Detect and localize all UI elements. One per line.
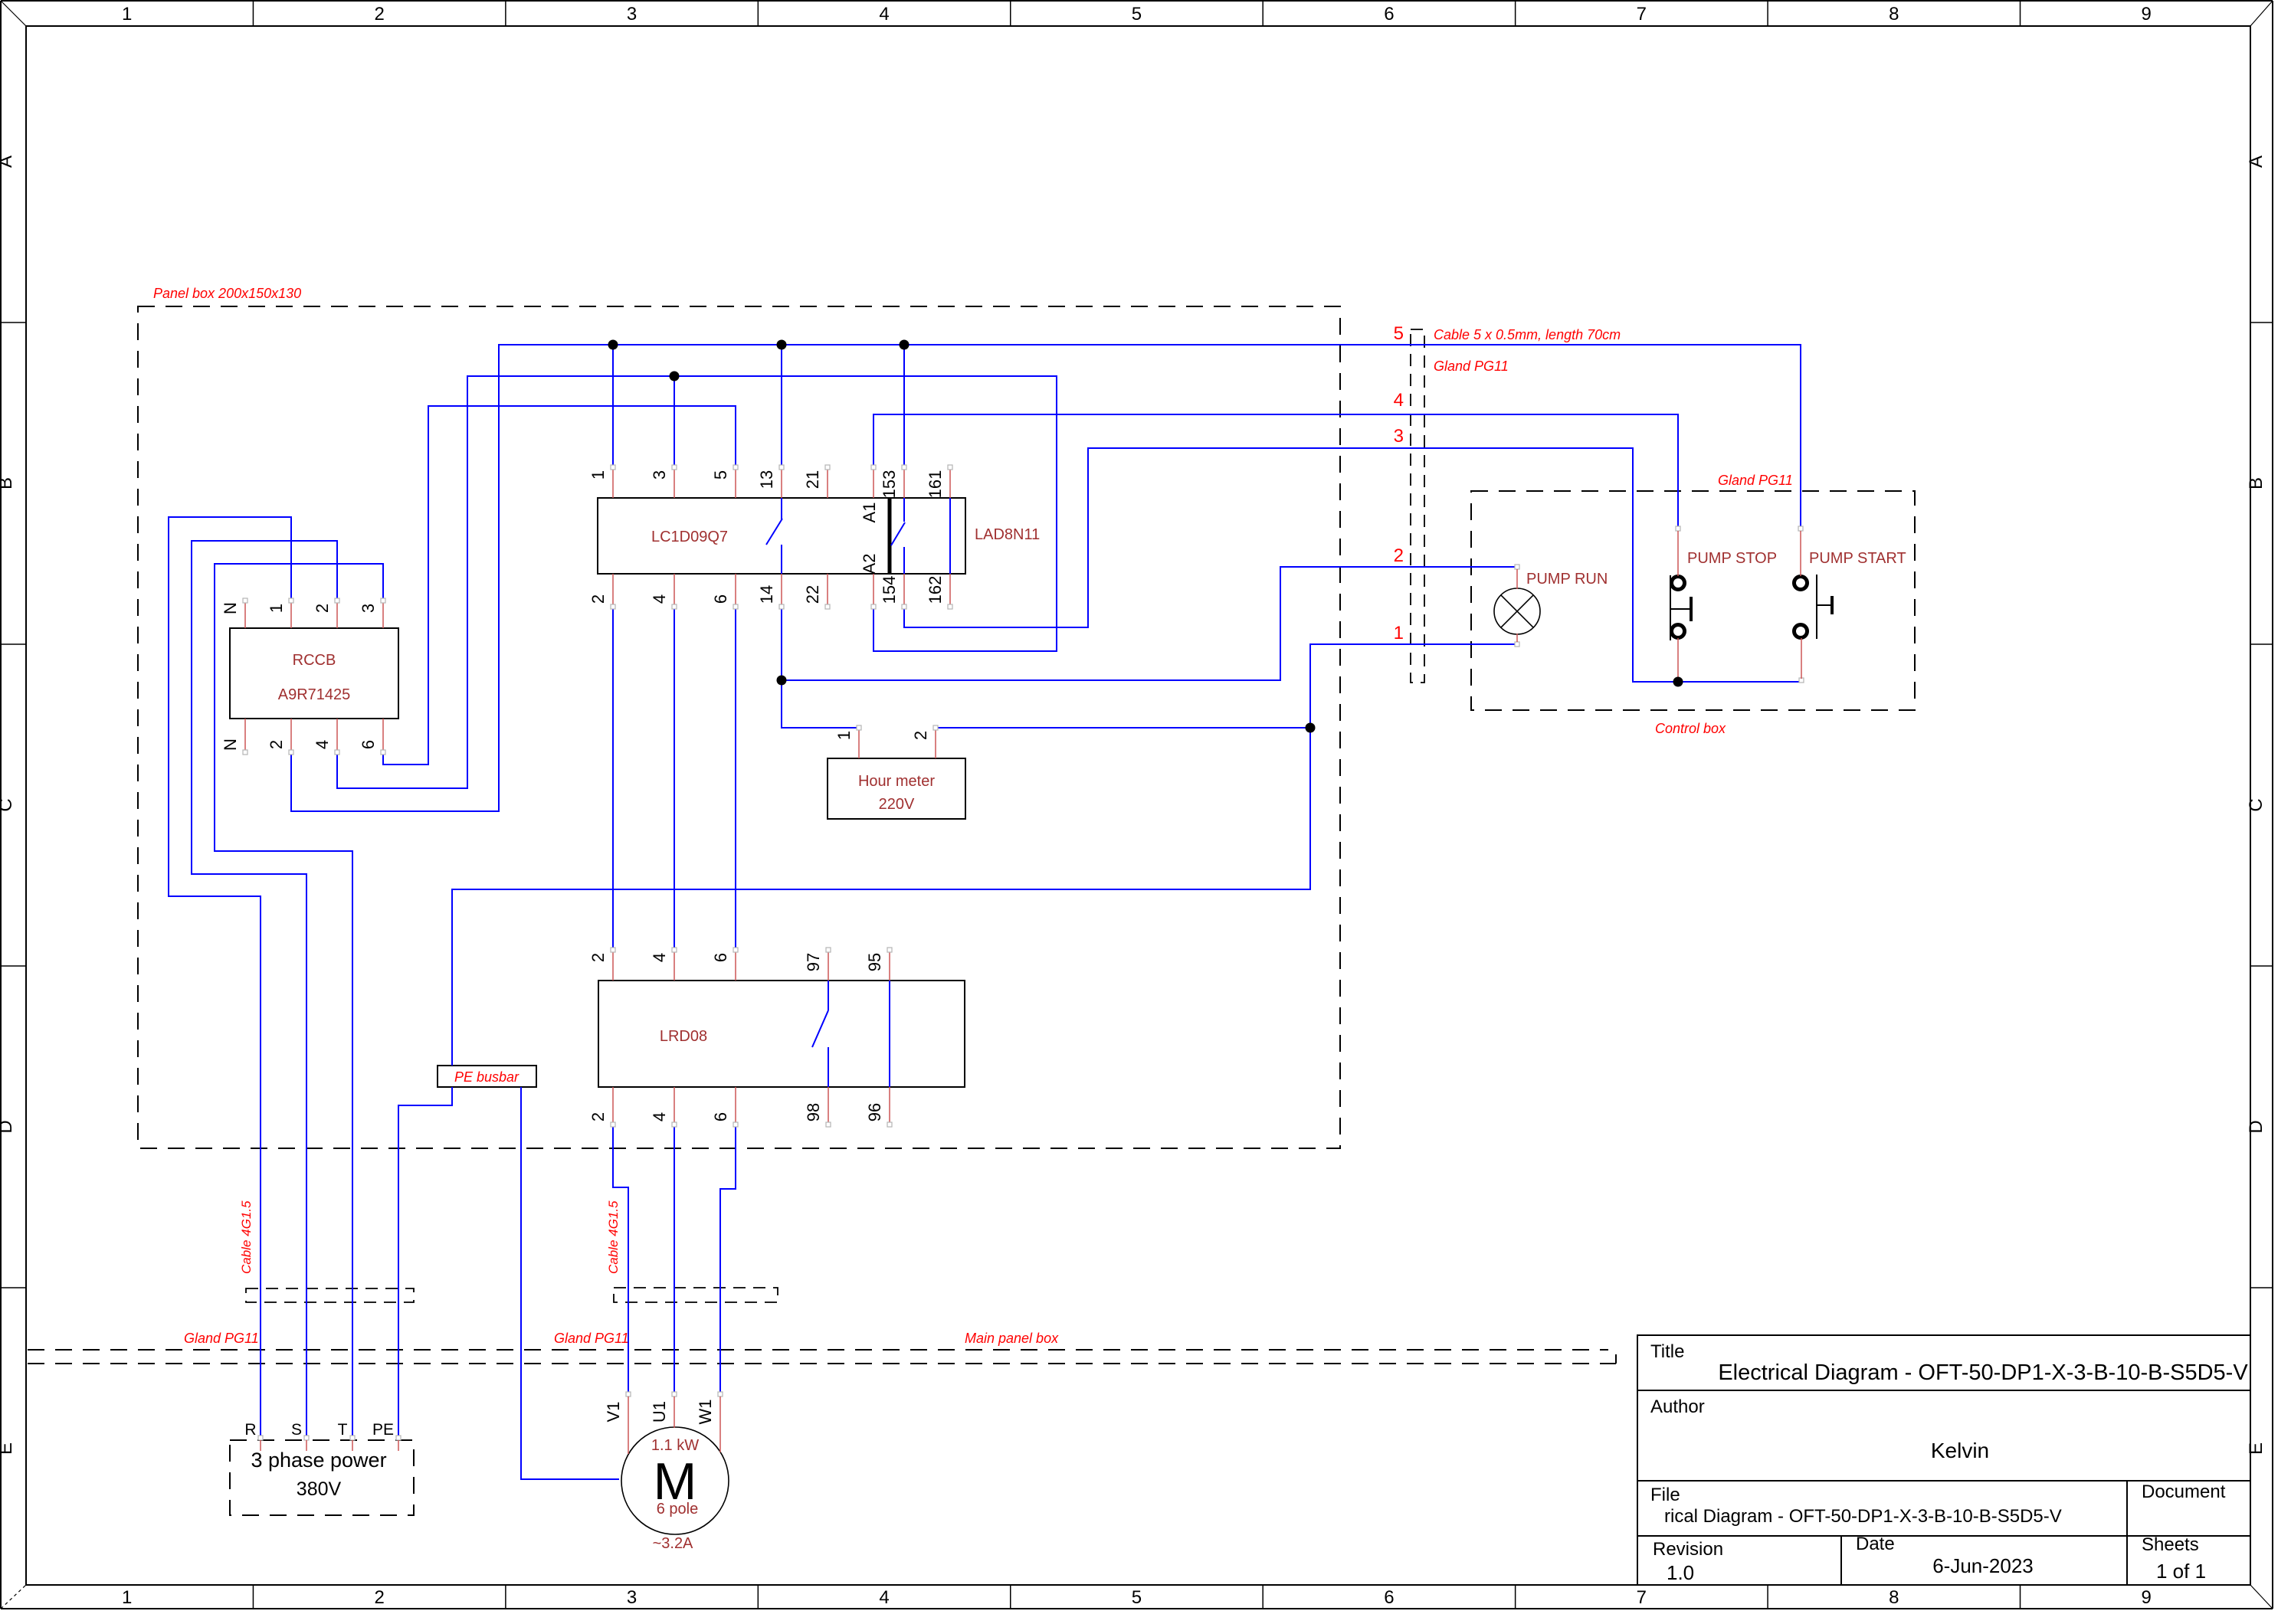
svg-text:Sheets: Sheets: [2142, 1534, 2199, 1555]
svg-text:6: 6: [711, 953, 730, 962]
svg-text:95: 95: [865, 953, 884, 971]
svg-text:LRD08: LRD08: [660, 1028, 707, 1045]
svg-text:1: 1: [267, 604, 286, 613]
svg-text:6: 6: [359, 740, 378, 749]
svg-text:PUMP RUN: PUMP RUN: [1526, 571, 1608, 588]
svg-text:Revision: Revision: [1653, 1539, 1723, 1560]
svg-text:Hour meter: Hour meter: [858, 773, 935, 790]
svg-text:153: 153: [880, 470, 899, 499]
svg-text:6: 6: [1384, 1587, 1394, 1608]
svg-text:D: D: [2246, 1120, 2266, 1133]
svg-text:Gland PG11: Gland PG11: [184, 1331, 259, 1346]
svg-text:4: 4: [650, 953, 669, 962]
svg-text:3: 3: [359, 604, 378, 613]
svg-text:2: 2: [911, 731, 930, 740]
svg-text:LC1D09Q7: LC1D09Q7: [651, 529, 728, 545]
svg-text:rical Diagram - OFT-50-DP1-X-3: rical Diagram - OFT-50-DP1-X-3-B-10-B-S5…: [1664, 1506, 2062, 1527]
svg-text:6: 6: [1384, 4, 1394, 25]
svg-text:S: S: [291, 1421, 302, 1439]
svg-text:4: 4: [879, 4, 889, 25]
svg-text:9: 9: [2142, 4, 2152, 25]
svg-text:D: D: [0, 1120, 16, 1133]
svg-text:380V: 380V: [297, 1478, 342, 1500]
svg-text:Gland PG11: Gland PG11: [1718, 473, 1793, 488]
svg-text:1.0: 1.0: [1667, 1561, 1694, 1584]
svg-text:2: 2: [374, 1587, 384, 1608]
svg-text:Cable 4G1.5: Cable 4G1.5: [239, 1200, 254, 1274]
svg-text:4: 4: [1394, 390, 1404, 411]
svg-text:1: 1: [122, 4, 132, 25]
svg-text:PUMP START: PUMP START: [1809, 550, 1906, 567]
svg-text:B: B: [2246, 477, 2266, 489]
svg-text:Cable 4G1.5: Cable 4G1.5: [606, 1200, 621, 1274]
svg-text:File: File: [1650, 1485, 1680, 1505]
svg-text:PUMP STOP: PUMP STOP: [1687, 550, 1777, 567]
svg-text:2: 2: [588, 953, 608, 962]
svg-text:4: 4: [650, 1112, 669, 1121]
svg-text:5: 5: [1132, 4, 1142, 25]
svg-text:Title: Title: [1650, 1341, 1684, 1362]
svg-text:2: 2: [588, 1112, 608, 1121]
svg-text:4: 4: [650, 594, 669, 604]
svg-text:A2: A2: [860, 554, 879, 575]
svg-text:6 pole: 6 pole: [657, 1501, 699, 1518]
svg-text:98: 98: [804, 1103, 823, 1121]
svg-text:22: 22: [803, 585, 822, 604]
svg-text:96: 96: [865, 1103, 884, 1121]
svg-text:3: 3: [627, 1587, 637, 1608]
svg-text:13: 13: [757, 470, 776, 489]
svg-text:2: 2: [374, 4, 384, 25]
svg-text:6-Jun-2023: 6-Jun-2023: [1932, 1554, 2034, 1577]
svg-text:8: 8: [1889, 1587, 1899, 1608]
svg-text:RCCB: RCCB: [293, 652, 336, 669]
svg-text:14: 14: [757, 585, 776, 604]
svg-text:Main panel box: Main panel box: [965, 1331, 1059, 1346]
svg-text:1: 1: [588, 470, 608, 480]
svg-text:161: 161: [926, 470, 945, 499]
svg-text:Gland PG11: Gland PG11: [1434, 359, 1509, 374]
svg-text:2: 2: [588, 594, 608, 604]
svg-text:A: A: [2246, 156, 2266, 168]
svg-text:N: N: [221, 738, 240, 751]
svg-text:4: 4: [879, 1587, 889, 1608]
svg-text:1: 1: [1394, 623, 1404, 643]
svg-text:7: 7: [1637, 4, 1647, 25]
svg-text:5: 5: [711, 470, 730, 480]
svg-text:3: 3: [627, 4, 637, 25]
svg-text:5: 5: [1132, 1587, 1142, 1608]
svg-text:LAD8N11: LAD8N11: [975, 526, 1040, 543]
svg-text:9: 9: [2142, 1587, 2152, 1608]
svg-text:1.1 kW: 1.1 kW: [651, 1437, 699, 1454]
svg-text:162: 162: [926, 576, 945, 604]
svg-text:6: 6: [711, 594, 730, 604]
svg-text:220V: 220V: [879, 796, 915, 813]
svg-text:2: 2: [267, 740, 286, 749]
svg-text:Cable 5 x 0.5mm, length 70cm: Cable 5 x 0.5mm, length 70cm: [1434, 327, 1621, 342]
svg-text:T: T: [338, 1421, 348, 1439]
svg-text:E: E: [0, 1442, 16, 1455]
svg-text:A: A: [0, 156, 16, 168]
svg-text:A1: A1: [860, 503, 879, 523]
svg-text:3: 3: [650, 470, 669, 480]
svg-text:4: 4: [313, 740, 332, 749]
svg-text:Document: Document: [2142, 1482, 2226, 1502]
svg-text:Date: Date: [1856, 1534, 1895, 1554]
svg-text:E: E: [2246, 1442, 2266, 1455]
svg-text:Kelvin: Kelvin: [1931, 1439, 1989, 1462]
svg-text:21: 21: [803, 470, 822, 489]
svg-text:N: N: [221, 602, 240, 614]
svg-text:97: 97: [804, 953, 823, 971]
svg-text:3: 3: [1394, 426, 1404, 447]
svg-text:Electrical Diagram - OFT-50-DP: Electrical Diagram - OFT-50-DP1-X-3-B-10…: [1718, 1360, 2248, 1385]
svg-text:C: C: [0, 798, 16, 811]
svg-text:~3.2A: ~3.2A: [653, 1535, 693, 1552]
svg-text:8: 8: [1889, 4, 1899, 25]
svg-text:B: B: [0, 477, 16, 489]
svg-text:1 of 1: 1 of 1: [2156, 1560, 2206, 1583]
svg-text:1: 1: [834, 731, 854, 740]
svg-text:3 phase power: 3 phase power: [251, 1449, 386, 1472]
svg-text:W1: W1: [696, 1400, 715, 1425]
svg-text:Panel box 200x150x130: Panel box 200x150x130: [153, 286, 301, 301]
svg-text:154: 154: [880, 576, 899, 604]
svg-text:7: 7: [1637, 1587, 1647, 1608]
svg-text:V1: V1: [604, 1402, 623, 1423]
svg-text:PE busbar: PE busbar: [454, 1069, 519, 1085]
svg-text:1: 1: [122, 1587, 132, 1608]
svg-text:6: 6: [711, 1112, 730, 1121]
svg-text:Control box: Control box: [1655, 721, 1726, 736]
svg-text:2: 2: [1394, 545, 1404, 566]
svg-text:C: C: [2246, 798, 2266, 811]
svg-text:2: 2: [313, 604, 332, 613]
svg-text:R: R: [244, 1421, 256, 1439]
svg-text:5: 5: [1394, 323, 1404, 344]
svg-text:U1: U1: [650, 1401, 669, 1423]
svg-text:PE: PE: [372, 1421, 394, 1439]
svg-text:Gland PG11: Gland PG11: [554, 1331, 629, 1346]
svg-text:Author: Author: [1650, 1396, 1705, 1417]
svg-text:A9R71425: A9R71425: [278, 686, 351, 703]
